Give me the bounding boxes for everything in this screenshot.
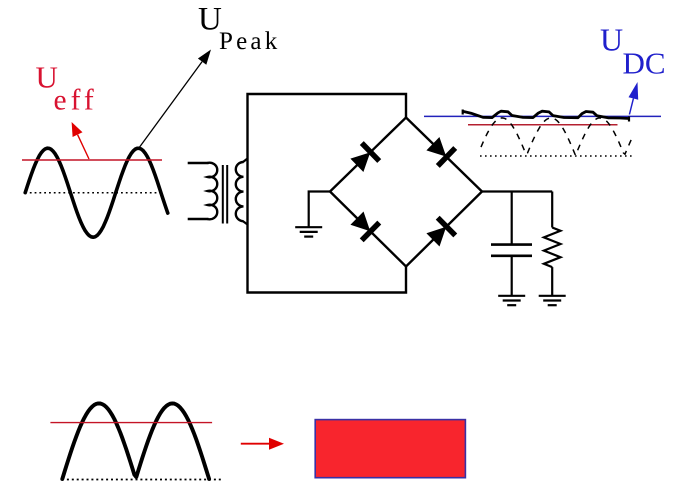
wire output node down to capacitor [511, 192, 513, 244]
wire capacitor to ground [511, 257, 513, 296]
svg-text:DC: DC [623, 46, 666, 81]
UDC average level blue line [424, 115, 661, 117]
diode D1 (left vertex to top vertex) [349, 143, 380, 174]
zero level dotted line (output) [480, 155, 632, 157]
wire bridge left vertex to ground [309, 192, 330, 228]
arrow from Ueff line to Ueff label (red) [72, 122, 89, 159]
wire secondary bottom connector [243, 221, 248, 224]
input AC sine waveform [25, 148, 168, 237]
Ueff level red line (bottom) [50, 422, 212, 424]
svg-text:U: U [600, 22, 623, 58]
ground (resistor) [539, 296, 566, 305]
transformer T1 primary lead bottom [188, 218, 209, 220]
transformer T1 primary lead top [188, 162, 209, 164]
arrow from sine peak to U Peak label (black) [138, 50, 211, 150]
Ueff level red line (output) [468, 124, 618, 126]
transformer T1 secondary winding [236, 162, 244, 221]
Ueff level red line (input) [22, 159, 162, 161]
arrow rectified wave to DC block (red) [241, 438, 284, 450]
wire loop from secondary to bridge [248, 94, 407, 293]
wire bridge right vertex to output node [482, 190, 552, 192]
zero level dotted line (bottom) [62, 479, 221, 481]
resistor R1 [544, 228, 561, 268]
wire resistor to ground [551, 267, 553, 295]
ground (bridge minus terminal) [295, 227, 322, 236]
ground (capacitor) [498, 296, 525, 305]
zero level dotted line (input) [25, 192, 161, 194]
arrow from blue line to U DC label (blue) [629, 82, 639, 115]
UDC ripple output waveform [463, 111, 630, 118]
wire secondary top connector [243, 159, 248, 163]
end tick left of ripple [462, 110, 464, 115]
transformer T1 core [223, 165, 227, 224]
svg-text:Peak: Peak [219, 28, 280, 55]
rectified output waveform (bottom) [62, 403, 209, 479]
dashed rectified sine under ripple [481, 118, 633, 155]
DC output block (red rectangle) [315, 420, 465, 478]
svg-text:eff: eff [54, 85, 98, 117]
transformer T1 primary winding [208, 163, 218, 220]
diode D4 (bottom vertex to right vertex) [425, 218, 456, 249]
end tick right of ripple [628, 117, 630, 122]
diode D3 (left vertex to bottom vertex) [349, 210, 380, 241]
capacitor C1 [491, 245, 532, 256]
diode D2 (top vertex to right vertex) [425, 135, 456, 166]
wire output node down to resistor [551, 192, 553, 228]
bridge rectifier diamond [330, 118, 482, 267]
